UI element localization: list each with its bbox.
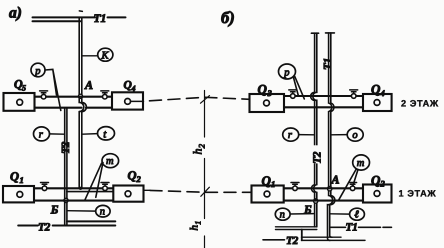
svg-text:h: h — [191, 149, 205, 155]
b) left riser top cap — [311, 32, 318, 34]
svg-text:3: 3 — [267, 88, 273, 98]
b) floor2 supply pipe — [284, 95, 363, 97]
dim tick floor1 — [201, 187, 210, 196]
valve b) floor2 left — [289, 90, 297, 98]
rotated label T1 b) — [322, 58, 334, 70]
svg-text:ℓ: ℓ — [354, 210, 359, 221]
T2 bottom main upper line — [67, 220, 115, 222]
valve floor2 right — [101, 91, 109, 99]
svg-text:1: 1 — [271, 179, 275, 189]
radiator Q4 b) — [363, 94, 392, 111]
valve b) floor2 right — [350, 90, 358, 98]
svg-text:n: n — [100, 207, 105, 218]
rotated label T2 b) — [311, 145, 324, 164]
svg-text:Q: Q — [371, 173, 381, 188]
svg-text:Q: Q — [258, 82, 268, 97]
valve b) floor1 left — [291, 183, 299, 191]
svg-text:р: р — [283, 68, 289, 79]
b) right riser T1 (double) — [329, 33, 334, 187]
svg-text:1 ЭТАЖ: 1 ЭТАЖ — [399, 189, 437, 199]
svg-text:m: m — [357, 158, 365, 169]
svg-text:4: 4 — [380, 88, 385, 98]
svg-text:а): а) — [9, 4, 22, 21]
radiator Q2 b) — [363, 185, 392, 203]
svg-text:Т1: Т1 — [94, 13, 107, 25]
supply riser bypass bend — [79, 98, 86, 111]
svg-text:Т2: Т2 — [286, 235, 299, 247]
T2 lead line b) — [263, 239, 285, 241]
svg-text:о: о — [352, 130, 357, 141]
circle t — [98, 127, 115, 140]
b) bottom main T2 double — [302, 237, 366, 240]
circle r b) — [283, 128, 299, 141]
b) floor1 return pipe — [284, 200, 363, 202]
svg-text:5: 5 — [22, 84, 26, 93]
T2 bottom lead line — [18, 225, 38, 227]
junction dot floor1 supply — [79, 187, 82, 190]
svg-text:К: К — [101, 50, 110, 61]
valve floor1 left — [41, 183, 49, 191]
b) floor1 supply pipe — [284, 187, 363, 189]
node A b) — [328, 187, 332, 191]
T1 top main upper line — [33, 16, 126, 18]
radiator Q4 — [112, 92, 143, 109]
node B junction floor1 — [64, 198, 68, 202]
svg-text:m: m — [106, 156, 114, 167]
b) left riser T2 (double) — [311, 33, 317, 145]
circle o b) — [347, 128, 363, 141]
svg-text:2: 2 — [136, 174, 142, 184]
radiator Q1 — [3, 186, 34, 202]
circle n b) — [275, 208, 290, 220]
svg-text:Q: Q — [371, 82, 381, 97]
b) left drop connector — [301, 230, 303, 241]
return riser below node — [65, 203, 67, 226]
circle p — [31, 63, 45, 77]
svg-text:б): б) — [221, 8, 235, 27]
dimension line — [204, 91, 206, 248]
radiator Q3 — [250, 94, 285, 112]
floor1 supply pipe — [34, 187, 114, 189]
valve floor1 right — [101, 183, 109, 191]
floor2 supply pipe — [35, 96, 113, 98]
radiator Q5 — [4, 93, 35, 111]
label h2 — [191, 143, 207, 154]
radiator Q1 b) — [252, 186, 284, 203]
svg-text:Q: Q — [128, 169, 137, 183]
svg-text:2: 2 — [380, 179, 386, 189]
radiator Q2 — [113, 186, 143, 202]
label h1 — [189, 221, 203, 231]
b) upper double main to left riser — [276, 227, 317, 230]
svg-text:2: 2 — [197, 143, 207, 148]
circle K — [98, 48, 113, 61]
circle n — [96, 205, 110, 217]
b) floor2 return pipe — [284, 106, 363, 108]
T1 top main lower line — [33, 20, 81, 22]
svg-text:1: 1 — [20, 175, 24, 185]
svg-text:Т1: Т1 — [346, 222, 358, 234]
T2 bottom main lower line — [53, 225, 116, 227]
svg-text:Б: Б — [50, 202, 59, 216]
circle r — [34, 127, 50, 141]
svg-text:4: 4 — [131, 84, 136, 93]
svg-text:Т2: Т2 — [312, 151, 324, 164]
valve floor2 left — [40, 91, 48, 99]
svg-text:1: 1 — [194, 221, 203, 225]
svg-text:Т2: Т2 — [60, 141, 72, 154]
supply riser lower segment — [79, 112, 82, 189]
floor1 mid pipe — [67, 191, 114, 193]
floor1 return pipe — [34, 200, 114, 202]
floor2 datum dashed line — [131, 100, 144, 102]
circle p b) — [279, 64, 296, 79]
supply riser upper segment (double line) — [79, 17, 82, 95]
svg-text:2 ЭТАЖ: 2 ЭТАЖ — [401, 98, 439, 108]
svg-text:Т2: Т2 — [38, 222, 51, 234]
svg-text:А: А — [331, 173, 340, 187]
circle m b) — [353, 155, 370, 170]
svg-text:Б: Б — [303, 203, 312, 217]
floor2 return pipe — [35, 107, 113, 109]
svg-text:р: р — [34, 66, 40, 77]
dim tick floor2 — [201, 96, 210, 104]
return riser (double line) — [65, 108, 67, 199]
node B b) — [314, 199, 318, 203]
break tick above riser — [79, 10, 82, 13]
svg-text:А: А — [84, 78, 93, 92]
valve b) floor1 right — [349, 183, 357, 191]
svg-text:n: n — [280, 210, 285, 221]
floor1 datum dashed line — [144, 189, 151, 191]
b) T1 bottom tee line — [331, 226, 392, 228]
circle l b) — [350, 208, 365, 220]
b) right riser top cap — [326, 32, 335, 34]
svg-text:Q: Q — [10, 170, 19, 184]
circle m — [102, 154, 119, 168]
svg-text:Q: Q — [262, 173, 272, 188]
node at floor2 junction — [78, 94, 82, 98]
